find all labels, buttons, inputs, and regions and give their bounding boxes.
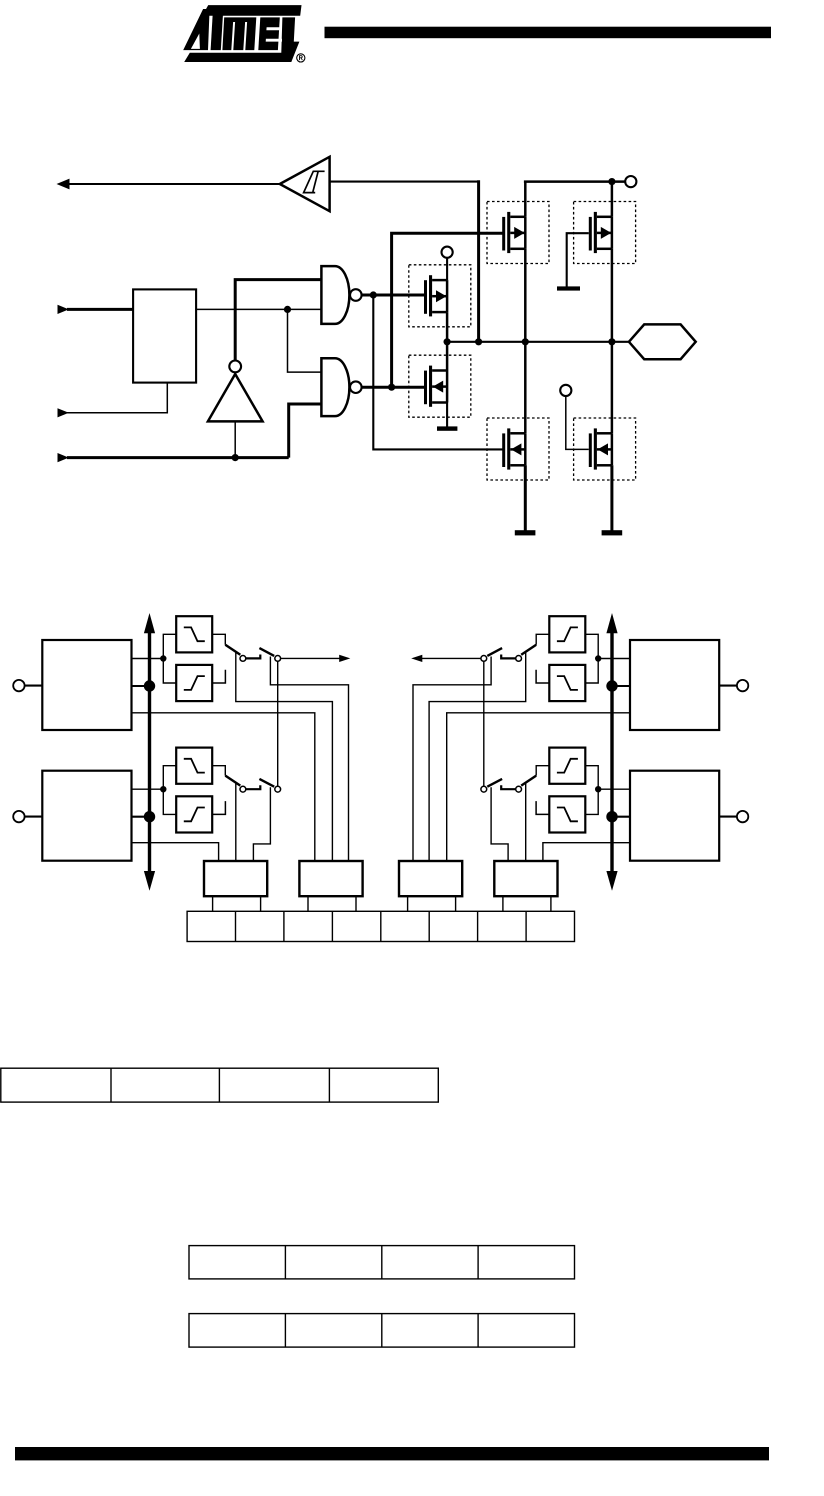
- control box 3 stubs to register: [407, 896, 409, 911]
- wire: branch to NAND2 input A: [288, 309, 322, 372]
- wire: pad feedback vertical (thick): [477, 180, 480, 342]
- wire: module2 out3 to ctrl box left: [132, 843, 219, 861]
- wire: M5 drain up to output node: [524, 342, 527, 434]
- wire: delay block to NAND1 input B: [196, 308, 321, 310]
- module box left 2: [42, 771, 131, 861]
- ground bar (M4 source): [437, 426, 457, 430]
- wire: upper lever1 drop to ctrl box left: [236, 653, 333, 862]
- header rule bar: [325, 27, 772, 39]
- bus junction dot left row2: [144, 811, 155, 822]
- wire: slew B out contact stub left row2: [212, 801, 225, 814]
- wire: module out1 left row1: [132, 658, 164, 660]
- switch lever 2 right row1: [487, 648, 502, 656]
- module box right 1: [630, 640, 719, 730]
- wire: split to slew boxes left row1: [163, 634, 176, 683]
- control box 2 stubs to register: [307, 896, 309, 911]
- slew limiter D2 (right falling): [549, 796, 585, 832]
- table 2: [189, 1246, 575, 1279]
- wire: inverter output up to NAND1 input A: [235, 280, 321, 361]
- slew limiter C (left falling): [176, 748, 212, 784]
- wire: terminal1 to module: [25, 685, 43, 687]
- junction dot NAND1 out: [370, 291, 377, 298]
- wire: input 3 riser to NAND2 input: [289, 404, 322, 458]
- delay block: [133, 289, 196, 382]
- junction dot output node 3: [522, 338, 529, 345]
- wire: slew A out to switch left row1: [212, 634, 225, 645]
- wire: NAND2 out up to high-side driver gate: [392, 233, 503, 387]
- input 1 arrowhead: [58, 305, 69, 314]
- wire: lower lever1 drop left: [235, 783, 237, 861]
- terminal circle right 1: [737, 680, 748, 691]
- transistor M1 (high-side driver): [487, 202, 549, 264]
- control box 4 stubs to register: [502, 896, 504, 911]
- switch contact L left row2: [246, 785, 260, 789]
- arrowhead left (output): [57, 179, 70, 190]
- switch lever 2 right row2: [487, 779, 502, 787]
- switch circle 2 left row2: [275, 786, 281, 792]
- switch lever 1 left row1: [225, 645, 240, 655]
- arrowhead left: [339, 655, 350, 662]
- junction dot delay line: [284, 306, 291, 313]
- transistor M2 (pull-up, disabled): [574, 202, 636, 264]
- wire: terminal to module right 2: [719, 816, 737, 818]
- ground bar (M2 gate): [557, 286, 580, 290]
- switch lever 2 left row2: [259, 779, 274, 787]
- junction dot VDD rail: [608, 178, 615, 185]
- transistor M5 (low-side driver): [487, 418, 549, 480]
- slew limiter B2 (right falling): [549, 665, 585, 701]
- inverter bubble: [229, 361, 241, 373]
- bus junction dot left row1: [144, 680, 155, 691]
- bus junction dot right row2: [606, 811, 617, 822]
- bus junction dot right row1: [606, 680, 617, 691]
- wire: slew B out contact stub left row1: [212, 670, 225, 683]
- wire: inverter input: [234, 422, 236, 458]
- Schmitt trigger: [280, 157, 330, 211]
- wire: terminal to M3 drain: [446, 258, 448, 280]
- wire: terminal2 to module: [25, 816, 43, 818]
- junction dot left row1: [160, 655, 166, 661]
- switch circle 1 right row1: [516, 656, 522, 662]
- junction dot input3/inverter: [232, 454, 239, 461]
- terminal circle left 1: [13, 680, 24, 691]
- transistor M6 (pull-down, disabled): [574, 418, 636, 480]
- wire: NAND1 out down to low-side driver gate: [373, 295, 502, 449]
- wire: split to slew boxes left row2: [163, 766, 176, 815]
- switch circle 2 right row1: [481, 656, 487, 662]
- wire: M3 source down to output node: [446, 312, 449, 342]
- wire: split to slew boxes right row2: [585, 766, 598, 815]
- table 1: [1, 1068, 439, 1102]
- wire: circle2 to circle2 vertical left: [277, 661, 279, 786]
- wire: M4 drain up to output node: [446, 342, 449, 371]
- wire: module out1 right row1: [598, 658, 630, 660]
- pad hexagon: [629, 324, 696, 359]
- arrowhead right: [411, 655, 422, 662]
- wire: slew A out to switch left row2: [212, 766, 225, 776]
- wire: split to slew boxes right row1: [585, 634, 598, 683]
- wire: M1 drain up to VDD rail: [524, 182, 527, 217]
- slew limiter A2 (right rising): [549, 616, 585, 652]
- wire: terminal down to M6 gate: [566, 396, 589, 449]
- wire: NAND2 output: [362, 386, 425, 389]
- input 2 arrowhead: [58, 408, 69, 417]
- control box 3: [399, 861, 462, 896]
- output node wire: [447, 341, 629, 343]
- junction dot output node 4: [608, 338, 615, 345]
- switch contact L right row1: [501, 655, 516, 659]
- slew limiter C2 (right rising): [549, 748, 585, 784]
- switch lever 2 left row1: [259, 648, 274, 656]
- junction dot output node 1: [444, 338, 451, 345]
- ground bar (M6): [602, 530, 623, 535]
- wire: upper lever2 drop to ctrl box left: [270, 657, 348, 862]
- wire: upper lever1 drop to ctrl box right: [429, 653, 526, 862]
- slew limiter D (left rising): [176, 796, 212, 832]
- wire: input 1 to delay block: [67, 308, 133, 311]
- wire: upper lever2 drop to ctrl box right: [413, 657, 491, 862]
- module box right 2: [630, 771, 719, 861]
- wire: M5 source down to ground: [524, 465, 527, 530]
- wire: module out2 to bus right row2: [612, 816, 630, 818]
- switch lever 1 left row2: [225, 776, 240, 786]
- wire: M2 source down to output node: [611, 249, 614, 342]
- switch circle 1 left row1: [240, 656, 246, 662]
- wire: module out2 to bus right row1: [612, 685, 630, 687]
- VDD rail: [524, 180, 625, 183]
- junction dot NAND2 out: [388, 384, 395, 391]
- wire: terminal to module right 1: [719, 685, 737, 687]
- wire: lower lever2 drop right: [491, 787, 508, 861]
- switch circle 2 right row2: [481, 786, 487, 792]
- module box left 1: [42, 640, 131, 730]
- switch lever 1 right row1: [521, 645, 536, 655]
- wire: slew B out contact stub right row1: [536, 670, 549, 683]
- registered trademark mark: [297, 54, 305, 62]
- ground bar (M5): [515, 530, 536, 535]
- wire: slew A out to switch right row1: [536, 634, 549, 645]
- terminal circle right 2: [737, 811, 748, 822]
- hysteresis symbol: [304, 171, 325, 192]
- terminal circle left 2: [13, 811, 24, 822]
- switch circle 1 left row2: [240, 786, 246, 792]
- wire: M6 source down to ground: [610, 465, 613, 530]
- control box 2: [299, 861, 362, 896]
- wire: input 3: [67, 456, 289, 459]
- VDD terminal circle: [625, 176, 636, 187]
- wire: lower lever1 drop right: [525, 783, 527, 861]
- VDD terminal circle (mid column): [442, 247, 453, 258]
- switch contact L right row2: [501, 785, 516, 789]
- wire: driver output to left with arrow: [67, 183, 280, 185]
- control box 1 stubs to register: [212, 896, 214, 911]
- junction dot left row2: [160, 786, 166, 792]
- wire: module out1 right row2: [598, 788, 630, 790]
- wire: slew B out contact stub right row2: [536, 801, 549, 814]
- wire: module out1 left row2: [132, 788, 164, 790]
- wire: module1 out3 to ctrl box left: [132, 713, 315, 861]
- transistor M3 (mid pull-up): [409, 265, 471, 327]
- junction dot right row1: [595, 655, 601, 661]
- wire: lower lever2 drop left: [253, 787, 270, 861]
- wire: module out2 to bus left row2: [132, 816, 150, 818]
- slew limiter A (left falling): [176, 616, 212, 652]
- junction dot right row2: [595, 786, 601, 792]
- wire: M1 source down to output node: [524, 249, 527, 342]
- junction dot output node 2: [475, 338, 482, 345]
- wire: input 2 to delay block bottom: [67, 383, 167, 413]
- IO data bus arrow (left): [148, 630, 151, 873]
- IO data bus arrow (right): [610, 630, 613, 873]
- NAND gate 1: [321, 266, 349, 324]
- wire: module2 out3 to ctrl box right: [543, 843, 630, 861]
- wire: switch out arrow right: [421, 657, 481, 659]
- wire: M6 drain up to output node: [611, 342, 614, 434]
- inverter triangle: [208, 374, 263, 421]
- switch lever 1 right row2: [521, 776, 536, 786]
- wire: module out2 to bus left row1: [132, 685, 150, 687]
- switch contact L left row1: [246, 655, 260, 659]
- wire: slew A out to switch right row2: [536, 766, 549, 776]
- transistor M4 (mid pull-down): [409, 355, 471, 417]
- wire: module1 out3 to ctrl box right: [447, 713, 630, 861]
- switch circle 2 left row1: [275, 656, 281, 662]
- wire: circle2 to circle2 vertical right: [483, 661, 485, 786]
- switch circle 1 right row2: [516, 786, 522, 792]
- wire: M2 drain up to VDD rail: [611, 182, 614, 217]
- NAND gate 2: [321, 358, 349, 416]
- gate terminal circle (M6): [560, 385, 571, 396]
- Atmel logo: [183, 5, 301, 62]
- control box 4: [494, 861, 557, 896]
- wire: NAND1 output: [362, 294, 425, 297]
- register cell row: [187, 911, 574, 941]
- table 3: [189, 1314, 575, 1348]
- footer rule bar: [15, 1447, 769, 1460]
- wire: Schmitt input from pad node: [330, 181, 480, 183]
- wire: M2 gate to ground: [567, 233, 589, 287]
- wire: switch out arrow left: [281, 657, 341, 659]
- slew limiter B (left rising): [176, 665, 212, 701]
- logo E notches (white): [266, 27, 282, 41]
- input 3 arrowhead: [58, 453, 69, 462]
- wire: M4 source down to ground: [446, 403, 448, 428]
- control box 1: [204, 861, 267, 896]
